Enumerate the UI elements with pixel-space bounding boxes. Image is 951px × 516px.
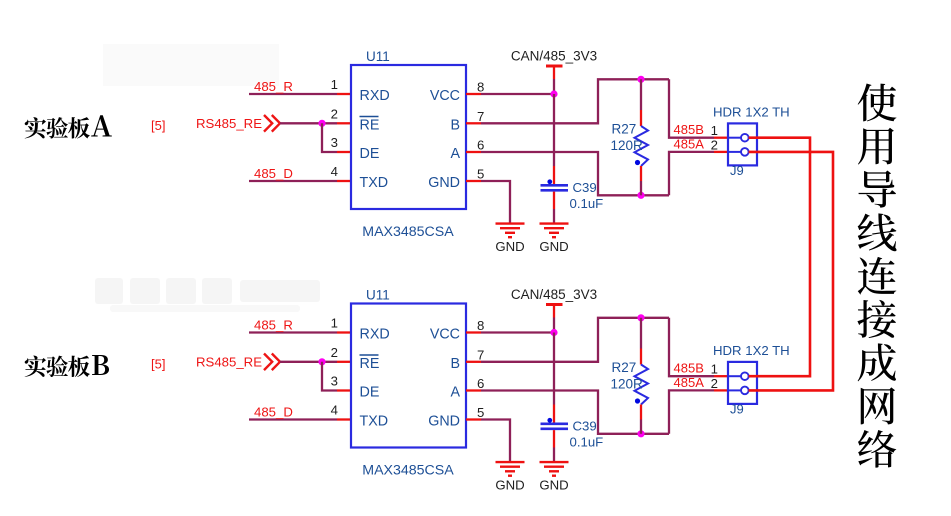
junction dot VCC/power (board B) (550, 329, 557, 336)
svg-text:1: 1 (711, 361, 718, 376)
pin 5 stub of U11 (board A) (466, 180, 481, 182)
connector J9 pin 2 circle (board A) (741, 148, 749, 156)
wire pin 7 B to loop (board B) (481, 318, 669, 362)
svg-text:485_R: 485_R (254, 79, 293, 94)
485A pin wire red (board A) (714, 151, 729, 153)
svg-text:485_R: 485_R (254, 318, 293, 333)
wire power rail down (board B) (553, 318, 555, 333)
resistor R27 zigzag (board A) (635, 126, 649, 166)
wire pin 8 VCC to power rail (board A) (481, 93, 554, 95)
resistor R27 pin-1 dot (board A) (635, 160, 640, 165)
svg-text:A: A (450, 385, 460, 401)
wire pin 5 GND down (board A) (481, 181, 510, 224)
svg-text:120R: 120R (611, 376, 644, 391)
wire loop to 485B (board A) (669, 79, 714, 137)
faint ghost smudge top-left (103, 44, 279, 86)
svg-text:8: 8 (477, 80, 484, 95)
svg-text:GND: GND (428, 414, 460, 430)
svg-text:RXD: RXD (360, 327, 390, 343)
svg-text:3: 3 (331, 374, 338, 389)
ground symbol GND (board B left) (496, 462, 525, 476)
svg-text:485A: 485A (674, 375, 705, 390)
resistor R27 zigzag (board B) (635, 365, 649, 405)
svg-text:MAX3485CSA: MAX3485CSA (362, 224, 454, 240)
svg-text:GND: GND (495, 478, 524, 493)
wire pin 7 B to loop (board A) (481, 79, 669, 123)
ground symbol GND (board A left) (496, 224, 525, 238)
pin 4 stub of U11 (board B) (337, 418, 351, 420)
pin 3 stub of U11 (board A) (337, 151, 351, 153)
capacitor C39 plates (board B) (541, 422, 569, 425)
resistor R27 bottom lead (board B) (640, 405, 642, 420)
wire pin 5 GND down (board B) (481, 420, 510, 463)
wire RS485_RE to pin 2 (board A) (280, 122, 337, 124)
pin 7 stub of U11 (board B) (466, 361, 481, 363)
resistor R27 top lead (board A) (640, 79, 642, 110)
wire jumper 485B: J9-A pin1 to J9-B pin1 (749, 138, 810, 377)
svg-text:VCC: VCC (430, 88, 460, 104)
capacitor C39 bottom lead (board B) (553, 430, 555, 447)
svg-text:C39: C39 (573, 419, 597, 434)
svg-text:U11: U11 (366, 288, 390, 303)
svg-text:RS485_RE: RS485_RE (196, 116, 262, 131)
svg-text:2: 2 (331, 106, 338, 121)
svg-text:GND: GND (495, 239, 524, 254)
wire power rail to capacitor (board A) (553, 94, 555, 166)
connector J9 pin 1 stub (board B) (728, 375, 741, 377)
svg-text:R27: R27 (612, 360, 637, 375)
connector J9 HDR 1X2 TH body (board B) (728, 362, 757, 404)
junction dot VCC/power (board A) (550, 90, 557, 97)
svg-text:DE: DE (360, 146, 380, 162)
connector J9 pin 1 stub (board A) (728, 137, 741, 139)
pin 5 stub of U11 (board B) (466, 418, 481, 420)
op-amp/IC U11 MAX3485CSA body (board A) (351, 65, 466, 209)
wire jumper 485A: J9-A pin2 to J9-B pin2 (749, 152, 833, 391)
svg-text:1: 1 (331, 316, 338, 331)
svg-text:6: 6 (477, 138, 484, 153)
pin 8 stub of U11 (board A) (466, 93, 481, 95)
connector J9 pin 2 stub (board A) (728, 151, 741, 153)
wire net 485_D to pin 4 (board B) (249, 418, 337, 420)
svg-text:485B: 485B (674, 122, 704, 137)
svg-text:RE: RE (360, 356, 380, 372)
svg-text:RS485_RE: RS485_RE (196, 355, 262, 370)
port RS485_RE chevron (board B) (264, 354, 272, 371)
pin 1 stub of U11 (board A) (337, 93, 351, 95)
wire loop to 485A (board B) (669, 390, 714, 433)
junction dot resistor top (board A) (637, 76, 644, 83)
svg-text:B: B (450, 356, 460, 372)
svg-text:1: 1 (711, 123, 718, 138)
connector J9 pin 1 circle (board B) (741, 372, 749, 380)
svg-text:GND: GND (539, 239, 568, 254)
485B pin wire red (board B) (714, 375, 729, 377)
svg-text:2: 2 (711, 376, 718, 391)
wire power rail down (board A) (553, 79, 555, 94)
caption 使用导线连接成网络 (vertical) (857, 84, 896, 468)
svg-text:TXD: TXD (360, 414, 389, 430)
connector J9 pin 2 circle (board B) (741, 387, 749, 395)
faint ghost smudge middle-left (95, 278, 320, 312)
svg-text:U11: U11 (366, 49, 390, 64)
wire net 485_D to pin 4 (board A) (249, 180, 337, 182)
capacitor C39 top lead (board A) (553, 166, 555, 184)
svg-text:485B: 485B (674, 360, 704, 375)
svg-text:DE: DE (360, 385, 380, 401)
wire pin 8 VCC to power rail (board B) (481, 331, 554, 333)
power symbol CAN/485_3V3 bar (board B) (546, 303, 563, 306)
wire pin 6 A to loop (board B) (481, 391, 669, 434)
svg-text:8: 8 (477, 318, 484, 333)
svg-text:RXD: RXD (360, 88, 390, 104)
capacitor C39 bottom lead (board A) (553, 192, 555, 209)
connector J9 pin 1 circle (board A) (741, 134, 749, 142)
pin 1 stub of U11 (board B) (337, 331, 351, 333)
svg-text:CAN/485_3V3: CAN/485_3V3 (511, 48, 597, 63)
svg-text:6: 6 (477, 376, 484, 391)
power symbol CAN/485_3V3 bar (board A) (546, 65, 563, 68)
port RS485_RE chevron (board A) (264, 115, 272, 132)
svg-text:2: 2 (711, 137, 718, 152)
485B pin wire red (board A) (714, 137, 729, 139)
ground symbol GND (board B right) (540, 462, 569, 476)
wire net 485_R to pin 1 (board B) (249, 331, 337, 333)
485A pin wire red (board B) (714, 389, 729, 391)
wire net 485_R to pin 1 (board A) (249, 93, 337, 95)
wire RE net down to pin 3 (board B) (322, 362, 337, 391)
svg-text:485_D: 485_D (254, 405, 293, 420)
connector J9 pin 2 stub (board B) (728, 389, 741, 391)
wire RE net down to pin 3 (board A) (322, 123, 337, 152)
pin 6 stub of U11 (board B) (466, 389, 481, 391)
svg-text:GND: GND (539, 478, 568, 493)
op-amp/IC U11 MAX3485CSA body (board B) (351, 304, 466, 448)
junction dot on RE net (board B) (318, 358, 325, 365)
svg-text:[5]: [5] (151, 356, 165, 371)
svg-text:120R: 120R (611, 138, 644, 153)
wire loop to 485B (board B) (669, 318, 714, 376)
resistor R27 pin-1 dot (board B) (635, 398, 640, 403)
ground symbol GND (board A right) (540, 224, 569, 238)
svg-text:C39: C39 (573, 180, 597, 195)
svg-text:5: 5 (477, 405, 484, 420)
svg-text:485_D: 485_D (254, 166, 293, 181)
svg-text:5: 5 (477, 167, 484, 182)
capacitor C39 top lead (board B) (553, 405, 555, 423)
svg-text:3: 3 (331, 135, 338, 150)
junction dot on RE net (board A) (318, 120, 325, 127)
svg-text:1: 1 (331, 77, 338, 92)
board label 实验板A (25, 115, 112, 138)
svg-text:2: 2 (331, 345, 338, 360)
resistor R27 top lead (board B) (640, 318, 642, 349)
svg-text:485A: 485A (674, 136, 705, 151)
svg-text:J9: J9 (730, 402, 744, 417)
svg-text:GND: GND (428, 175, 460, 191)
connector J9 HDR 1X2 TH body (board A) (728, 123, 757, 165)
resistor R27 bottom lead (board A) (640, 166, 642, 181)
pin 7 stub of U11 (board A) (466, 122, 481, 124)
pin 6 stub of U11 (board A) (466, 151, 481, 153)
pin 4 stub of U11 (board A) (337, 180, 351, 182)
wire pin 6 A to loop (board A) (481, 152, 669, 195)
svg-text:A: A (450, 146, 460, 162)
wire power rail to capacitor (board B) (553, 333, 555, 405)
junction dot resistor bottom (board B) (637, 430, 644, 437)
pin 2 stub of U11 (board A) (337, 122, 351, 124)
board label 实验板B (25, 355, 109, 377)
pin 3 stub of U11 (board B) (337, 389, 351, 391)
svg-text:HDR 1X2 TH: HDR 1X2 TH (713, 105, 790, 120)
svg-text:[5]: [5] (151, 118, 165, 133)
capacitor C39 pin-1 dot (board A) (547, 179, 552, 184)
svg-text:0.1uF: 0.1uF (570, 196, 604, 211)
junction dot resistor top (board B) (637, 314, 644, 321)
pin 8 stub of U11 (board B) (466, 331, 481, 333)
svg-text:HDR 1X2 TH: HDR 1X2 TH (713, 343, 790, 358)
svg-text:MAX3485CSA: MAX3485CSA (362, 463, 454, 479)
svg-text:TXD: TXD (360, 175, 389, 191)
wire RS485_RE to pin 2 (board B) (280, 361, 337, 363)
wire loop to 485A (board A) (669, 152, 714, 195)
pin 2 stub of U11 (board B) (337, 361, 351, 363)
svg-text:7: 7 (477, 347, 484, 362)
svg-text:7: 7 (477, 109, 484, 124)
capacitor C39 pin-1 dot (board B) (547, 418, 552, 423)
svg-text:RE: RE (360, 117, 380, 133)
svg-text:CAN/485_3V3: CAN/485_3V3 (511, 287, 597, 302)
junction dot resistor bottom (board A) (637, 192, 644, 199)
svg-text:B: B (450, 117, 460, 133)
svg-text:R27: R27 (612, 122, 637, 137)
svg-text:0.1uF: 0.1uF (570, 435, 604, 450)
svg-text:4: 4 (331, 164, 338, 179)
svg-text:4: 4 (331, 403, 338, 418)
svg-text:J9: J9 (730, 163, 744, 178)
capacitor C39 plates (board A) (541, 184, 569, 187)
svg-text:VCC: VCC (430, 327, 460, 343)
